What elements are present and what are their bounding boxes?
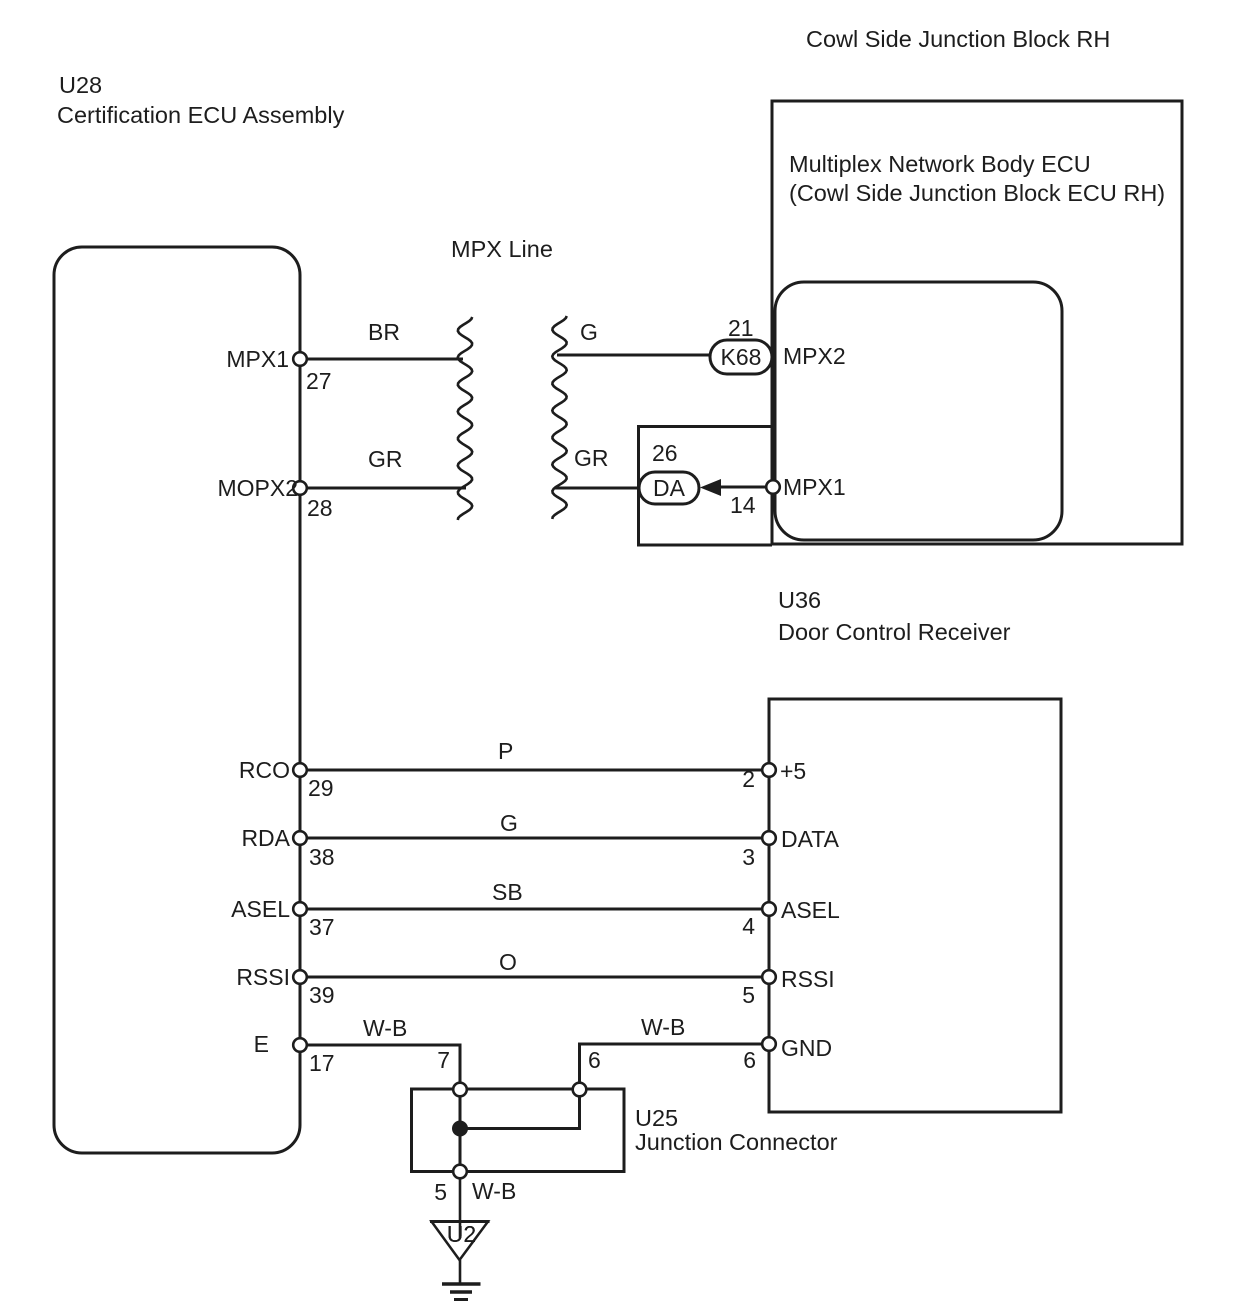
svg-text:RCO: RCO	[239, 757, 290, 783]
svg-text:P: P	[498, 738, 513, 764]
wire G from RDA 38 to DATA 3	[306, 837, 762, 840]
wire from triangle to ground symbol	[459, 1260, 462, 1283]
pin 7 of junction connector	[453, 1083, 467, 1097]
wire P from RCO 29 to +5 2	[306, 769, 762, 772]
svg-text:37: 37	[309, 914, 335, 940]
arrow pointing to DA	[700, 479, 721, 496]
svg-text:MPX2: MPX2	[783, 343, 846, 369]
svg-text:38: 38	[309, 844, 335, 870]
svg-text:GR: GR	[368, 446, 403, 472]
svg-text:G: G	[500, 810, 518, 836]
pin MPX1 (27) of U28	[293, 352, 307, 366]
svg-text:+5: +5	[780, 758, 806, 784]
svg-text:Junction Connector: Junction Connector	[635, 1129, 838, 1155]
svg-text:RSSI: RSSI	[236, 964, 290, 990]
svg-text:4: 4	[742, 913, 755, 939]
svg-text:W-B: W-B	[472, 1178, 516, 1204]
wire inside junction connector from pin 7 to pin 5	[459, 1089, 462, 1171]
svg-text:Door Control Receiver: Door Control Receiver	[778, 619, 1011, 645]
pin 5 of junction connector	[453, 1165, 467, 1179]
svg-text:28: 28	[307, 495, 333, 521]
svg-text:W-B: W-B	[641, 1014, 685, 1040]
svg-text:O: O	[499, 949, 517, 975]
twisted-pair squiggle left	[458, 317, 472, 520]
svg-text:Multiplex Network Body ECU: Multiplex Network Body ECU	[789, 151, 1091, 177]
svg-text:39: 39	[309, 982, 335, 1008]
pin MOPX2 (28) of U28	[293, 481, 307, 495]
pin +5 (2)	[762, 763, 776, 777]
pin GND (6)	[762, 1037, 776, 1051]
svg-text:GND: GND	[781, 1035, 832, 1061]
svg-text:5: 5	[434, 1179, 447, 1205]
svg-text:17: 17	[309, 1050, 335, 1076]
wire GR left from MOPX2 pin 28 to twisted section	[306, 487, 466, 490]
svg-text:7: 7	[437, 1047, 450, 1073]
wire G from twisted section to connector K68	[557, 354, 710, 357]
block Cowl Side Junction Block RH body	[772, 101, 1182, 544]
svg-text:BR: BR	[368, 319, 400, 345]
pin 6 of junction connector	[573, 1083, 587, 1097]
svg-text:2: 2	[742, 766, 755, 792]
svg-text:14: 14	[730, 492, 756, 518]
pin RSSI 39	[293, 970, 307, 984]
wire GR right from twisted section to connector DA	[554, 487, 639, 490]
wire W-B from junction connector pin 6 to GND 6	[580, 1044, 763, 1082]
svg-text:DATA: DATA	[781, 826, 840, 852]
wire from arrow to MPX1 pin	[720, 486, 766, 489]
block U28 Certification ECU Assembly body	[54, 247, 300, 1153]
block U25 Junction Connector body	[412, 1089, 625, 1172]
junction node (solder dot)	[452, 1121, 468, 1137]
pin DATA (3)	[762, 831, 776, 845]
svg-text:6: 6	[743, 1047, 756, 1073]
svg-text:(Cowl Side Junction Block ECU: (Cowl Side Junction Block ECU RH)	[789, 180, 1165, 206]
svg-text:26: 26	[652, 440, 678, 466]
ground symbol	[442, 1282, 481, 1286]
twisted-pair squiggle right	[552, 316, 566, 519]
svg-text:29: 29	[308, 775, 334, 801]
pin RSSI (5)	[762, 970, 776, 984]
pin MPX1 of junction block	[766, 480, 780, 494]
svg-text:ASEL: ASEL	[781, 897, 840, 923]
svg-text:ASEL: ASEL	[231, 896, 290, 922]
svg-text:MPX1: MPX1	[783, 474, 846, 500]
svg-text:5: 5	[742, 982, 755, 1008]
svg-text:MPX1: MPX1	[226, 346, 289, 372]
pin ASEL 37	[293, 902, 307, 916]
svg-text:MOPX2: MOPX2	[217, 475, 298, 501]
svg-text:RSSI: RSSI	[781, 966, 835, 992]
svg-text:U25: U25	[635, 1105, 678, 1131]
svg-text:27: 27	[306, 368, 332, 394]
svg-text:W-B: W-B	[363, 1015, 407, 1041]
wire BR from MPX1 pin 27 to twisted section	[306, 358, 463, 361]
svg-text:SB: SB	[492, 879, 523, 905]
wire O from RSSI 39 to RSSI 5	[306, 976, 762, 979]
block Multiplex Network Body ECU inner body	[775, 282, 1062, 540]
pin RCO 29	[293, 763, 307, 777]
svg-text:E: E	[254, 1031, 269, 1057]
wire W-B from E 17 down to junction connector pin 7	[306, 1045, 460, 1082]
svg-text:K68: K68	[721, 344, 762, 370]
pin E 17	[293, 1038, 307, 1052]
svg-text:3: 3	[742, 844, 755, 870]
pin RDA 38	[293, 831, 307, 845]
wire SB from ASEL 37 to ASEL 4	[306, 908, 762, 911]
block U36 Door Control Receiver body	[769, 699, 1061, 1112]
svg-text:MPX Line: MPX Line	[451, 236, 553, 262]
block DA connector box	[639, 427, 773, 546]
svg-text:21: 21	[728, 315, 754, 341]
svg-text:Cowl Side Junction Block RH: Cowl Side Junction Block RH	[806, 26, 1110, 52]
svg-text:6: 6	[588, 1047, 601, 1073]
svg-text:RDA: RDA	[241, 825, 290, 851]
wire inside junction connector from pin 6 to node	[460, 1089, 580, 1129]
svg-text:U28: U28	[59, 72, 102, 98]
ground point triangle	[432, 1222, 489, 1261]
svg-text:DA: DA	[653, 475, 686, 501]
pin ASEL (4)	[762, 902, 776, 916]
svg-text:U36: U36	[778, 587, 821, 613]
svg-text:Certification ECU Assembly: Certification ECU Assembly	[57, 102, 345, 128]
wire into ground triangle	[459, 1179, 462, 1238]
svg-text:GR: GR	[574, 445, 609, 471]
svg-text:G: G	[580, 319, 598, 345]
